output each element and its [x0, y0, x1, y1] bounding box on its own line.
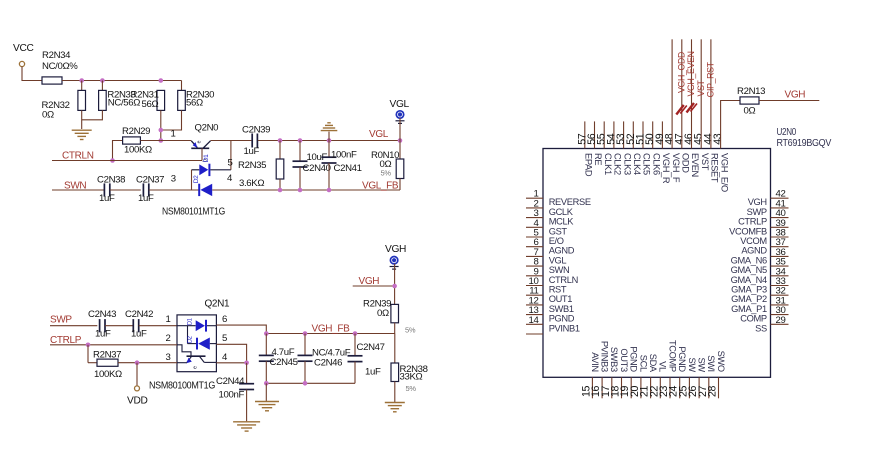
- svg-text:VGH_R: VGH_R: [661, 153, 671, 184]
- wire: [110, 189, 141, 191]
- svg-text:3: 3: [166, 352, 171, 363]
- svg-text:1uF: 1uF: [99, 193, 115, 204]
- pin 2 path: [177, 345, 191, 356]
- pin 1 wire: [139, 325, 177, 327]
- svg-text:AGND: AGND: [741, 246, 767, 256]
- svg-text:PGND: PGND: [677, 346, 687, 372]
- capacitor C2N41: [328, 141, 330, 158]
- svg-text:C2N46: C2N46: [314, 358, 342, 369]
- resistor R2N38: [391, 363, 399, 382]
- IC top pin stubs: [584, 121, 586, 148]
- pin 5 wire: [216, 344, 246, 363]
- wire: [177, 362, 187, 364]
- svg-text:REVERSE: REVERSE: [549, 197, 591, 207]
- svg-text:SWP: SWP: [50, 315, 72, 326]
- svg-text:VCOM: VCOM: [740, 236, 767, 246]
- svg-text:1: 1: [166, 314, 171, 325]
- pin 5 wire: [230, 141, 232, 170]
- svg-text:5%: 5%: [381, 169, 392, 178]
- resistor R2N39: [391, 304, 399, 322]
- svg-text:SWI: SWI: [706, 355, 716, 372]
- IC bottom pin stubs: [591, 377, 593, 398]
- svg-text:SW: SW: [697, 358, 707, 373]
- wire: [187, 326, 189, 344]
- svg-text:SWN: SWN: [549, 265, 570, 275]
- resistor R2N13: [740, 97, 759, 104]
- svg-text:VCOMFB: VCOMFB: [729, 226, 767, 236]
- svg-text:Q2N0: Q2N0: [195, 123, 219, 134]
- svg-text:33KΩ: 33KΩ: [400, 372, 423, 383]
- svg-text:D1: D1: [203, 154, 210, 162]
- svg-text:1uF: 1uF: [131, 329, 147, 340]
- svg-text:e: e: [193, 366, 199, 369]
- svg-text:CLK2: CLK2: [613, 153, 623, 175]
- svg-text:C2N39: C2N39: [242, 125, 270, 136]
- svg-text:R2N29: R2N29: [122, 126, 150, 137]
- svg-text:SWB1: SWB1: [549, 304, 574, 314]
- svg-text:R2N34: R2N34: [42, 50, 71, 61]
- IC U2N0 body: [543, 149, 771, 378]
- svg-text:VGH: VGH: [748, 197, 767, 207]
- pin 3 wire: [137, 362, 177, 364]
- svg-text:6: 6: [222, 314, 227, 325]
- ground: [385, 402, 405, 404]
- svg-text:3.6KΩ: 3.6KΩ: [239, 178, 264, 189]
- wire: [201, 148, 203, 160]
- svg-text:OUT1: OUT1: [549, 294, 573, 304]
- node junction: [135, 360, 140, 365]
- net VGH_EVEN wire: [691, 39, 693, 148]
- diode D1: [192, 169, 200, 171]
- ground: [328, 132, 330, 141]
- svg-text:PVINB1: PVINB1: [549, 323, 580, 333]
- node junction: [278, 138, 283, 143]
- svg-text:OUT3: OUT3: [619, 348, 629, 372]
- svg-text:VDD: VDD: [127, 396, 147, 407]
- svg-text:EVEN: EVEN: [690, 153, 700, 177]
- capacitor C2N44: [246, 363, 248, 384]
- diode D2: [196, 338, 198, 350]
- svg-text:100nF: 100nF: [331, 150, 357, 161]
- svg-text:5%: 5%: [405, 326, 416, 335]
- net VGH_ODD wire: [681, 39, 683, 148]
- svg-text:56Ω: 56Ω: [142, 99, 159, 110]
- svg-text:VGH_EVEN: VGH_EVEN: [686, 51, 696, 96]
- svg-text:2: 2: [166, 333, 171, 344]
- svg-text:AGND: AGND: [549, 246, 575, 256]
- svg-text:VGH_FB: VGH_FB: [312, 324, 351, 335]
- wire: [62, 80, 182, 82]
- svg-text:SWB3: SWB3: [609, 347, 619, 372]
- pin 4 wire: [216, 362, 246, 364]
- wire: [211, 140, 252, 142]
- wire: [394, 334, 396, 364]
- wire: [105, 325, 133, 327]
- svg-text:EPAD: EPAD: [584, 153, 594, 177]
- svg-text:D2: D2: [188, 335, 194, 343]
- svg-text:PVINB3: PVINB3: [600, 341, 610, 372]
- capacitor C2N45: [265, 334, 267, 356]
- net VGH_FB rail: [266, 333, 395, 335]
- resistor R0N10: [399, 141, 401, 160]
- svg-text:VCC: VCC: [13, 43, 33, 54]
- node junction: [159, 128, 164, 133]
- svg-text:CTRLN: CTRLN: [549, 275, 578, 285]
- svg-text:VST: VST: [700, 153, 710, 171]
- svg-text:SDA: SDA: [648, 354, 658, 373]
- svg-text:NC/0Ω%: NC/0Ω%: [42, 61, 78, 72]
- diode D2: [198, 184, 200, 196]
- package outline Q2N1: [177, 315, 216, 372]
- net GIP_RST wire: [710, 39, 712, 148]
- svg-text:29: 29: [776, 315, 786, 326]
- svg-text:C2N37: C2N37: [136, 175, 164, 186]
- svg-text:CLK1: CLK1: [603, 153, 613, 175]
- wire: [394, 264, 396, 305]
- svg-text:1uF: 1uF: [244, 146, 260, 157]
- transistor Q1: [187, 355, 206, 357]
- svg-text:C2N44: C2N44: [216, 376, 245, 387]
- svg-text:56Ω: 56Ω: [186, 98, 203, 109]
- capacitor C2N40: [299, 141, 301, 162]
- capacitor C2N42: [132, 319, 134, 332]
- svg-text:VGL: VGL: [549, 255, 567, 265]
- svg-text:VL: VL: [658, 361, 668, 372]
- svg-text:GMA_P2: GMA_P2: [731, 294, 767, 304]
- resistor R2N35: [279, 141, 281, 160]
- node junction: [110, 158, 115, 163]
- svg-text:R2N37: R2N37: [93, 350, 121, 361]
- svg-text:R2N35: R2N35: [238, 160, 266, 171]
- svg-text:5: 5: [228, 158, 233, 169]
- svg-text:5%: 5%: [406, 384, 417, 393]
- svg-text:VGL: VGL: [390, 99, 410, 110]
- svg-text:C2N42: C2N42: [125, 309, 153, 320]
- capacitor C2N43: [99, 319, 101, 332]
- svg-text:100KΩ: 100KΩ: [94, 369, 122, 380]
- svg-text:D2: D2: [193, 175, 200, 183]
- resistor R2N32: [81, 81, 83, 91]
- svg-text:GMA_N6: GMA_N6: [731, 255, 767, 265]
- capacitor C2N39: [251, 134, 253, 148]
- pin 48 wire: [671, 39, 673, 148]
- svg-text:R2N13: R2N13: [737, 86, 765, 97]
- net VST wire: [700, 39, 702, 148]
- svg-text:VGH: VGH: [785, 90, 806, 101]
- svg-text:GMA_P3: GMA_P3: [731, 285, 767, 295]
- wire: [399, 118, 401, 141]
- svg-text:C2N41: C2N41: [334, 163, 362, 174]
- node junction: [264, 381, 269, 386]
- net VGH wire: [759, 100, 819, 102]
- pin 6 wire: [216, 325, 266, 333]
- svg-text:PGND: PGND: [629, 346, 639, 372]
- svg-text:RE: RE: [593, 153, 603, 165]
- svg-text:Q2N1: Q2N1: [205, 299, 231, 310]
- svg-text:U2N0: U2N0: [777, 127, 797, 138]
- svg-text:e: e: [197, 141, 203, 144]
- ground: [265, 383, 267, 401]
- svg-text:MCLK: MCLK: [549, 217, 575, 227]
- svg-text:C2N47: C2N47: [357, 342, 385, 353]
- wire: [266, 382, 355, 384]
- svg-text:28: 28: [707, 385, 719, 397]
- svg-text:C2N45: C2N45: [270, 357, 298, 368]
- capacitor C2N37: [142, 183, 144, 196]
- IC right pin stubs: [771, 197, 789, 199]
- svg-text:100nF: 100nF: [219, 390, 245, 401]
- svg-text:VGL: VGL: [369, 129, 389, 140]
- svg-text:VGL_FB: VGL_FB: [362, 181, 399, 192]
- svg-text:CTRLN: CTRLN: [62, 151, 94, 162]
- svg-text:SCL: SCL: [638, 355, 648, 372]
- svg-text:COMP: COMP: [740, 314, 767, 324]
- svg-text:VGH_F: VGH_F: [671, 153, 681, 183]
- svg-text:VGH: VGH: [359, 276, 380, 287]
- svg-text:43: 43: [712, 133, 724, 145]
- net VGL_FB: [278, 188, 283, 193]
- svg-text:E/O: E/O: [549, 236, 564, 246]
- svg-text:1uF: 1uF: [95, 329, 111, 340]
- svg-text:GST: GST: [549, 226, 568, 236]
- svg-text:NSM80100MT1G: NSM80100MT1G: [149, 381, 216, 392]
- no-connect mark pin 47: [676, 105, 684, 115]
- svg-text:ODD: ODD: [681, 153, 691, 173]
- svg-text:GMA_N5: GMA_N5: [731, 265, 767, 275]
- IC left pin stubs: [526, 197, 543, 199]
- ground: [233, 421, 260, 423]
- svg-text:GMA_N4: GMA_N4: [731, 275, 767, 285]
- pin 43 wire: [721, 101, 740, 149]
- resistor R2N34: [42, 77, 62, 84]
- svg-text:0Ω: 0Ω: [377, 308, 389, 319]
- svg-text:VST: VST: [696, 79, 706, 96]
- diode D1: [177, 325, 196, 327]
- ground: [72, 129, 92, 131]
- pin 1 wire: [161, 140, 192, 142]
- net VGL wire: [258, 140, 400, 142]
- svg-text:NSM80101MT1G: NSM80101MT1G: [162, 207, 225, 218]
- svg-text:GMA_P1: GMA_P1: [731, 304, 767, 314]
- svg-text:5: 5: [222, 333, 227, 344]
- node junction: [244, 361, 249, 366]
- svg-text:1uF: 1uF: [138, 193, 154, 204]
- svg-text:VGH: VGH: [385, 244, 406, 255]
- svg-text:1: 1: [171, 129, 176, 140]
- svg-text:GIP_RST: GIP_RST: [706, 61, 716, 97]
- svg-text:1uF: 1uF: [365, 367, 381, 378]
- svg-text:SWO: SWO: [716, 351, 726, 372]
- svg-text:CLK3: CLK3: [622, 153, 632, 175]
- node junction: [264, 331, 269, 336]
- no-connect mark pin 46: [687, 103, 695, 113]
- svg-text:TCOMP: TCOMP: [667, 340, 677, 372]
- svg-text:VGH_ODD: VGH_ODD: [676, 52, 686, 93]
- svg-text:0Ω: 0Ω: [744, 106, 756, 117]
- svg-text:GCLK: GCLK: [549, 207, 574, 217]
- pin 3 wire: [149, 189, 200, 191]
- svg-text:SW: SW: [687, 358, 697, 373]
- pin 4 wire: [212, 189, 280, 191]
- resistor R2N33: [101, 81, 103, 91]
- svg-text:3: 3: [171, 174, 176, 185]
- node junction: [79, 78, 84, 83]
- resistor R2N30: [181, 81, 183, 91]
- svg-text:C2N43: C2N43: [88, 309, 116, 320]
- net VGL_FB wire: [280, 189, 400, 191]
- svg-text:D1: D1: [188, 317, 194, 325]
- capacitor C2N46: [304, 334, 306, 356]
- resistor R2N29: [113, 141, 123, 161]
- svg-text:CLK6: CLK6: [651, 153, 661, 175]
- svg-text:14: 14: [529, 315, 540, 326]
- capacitor C2N38: [103, 183, 105, 196]
- resistor R2N31: [157, 90, 165, 110]
- svg-text:RT6919BGQV: RT6919BGQV: [777, 138, 832, 149]
- svg-text:C2N40: C2N40: [303, 163, 331, 174]
- power flag VDD: [136, 363, 138, 386]
- wire: [22, 67, 42, 81]
- svg-text:C2N38: C2N38: [97, 175, 125, 186]
- svg-text:PGND: PGND: [549, 314, 575, 324]
- svg-text:RESET: RESET: [710, 153, 720, 183]
- wire: [191, 170, 193, 190]
- svg-text:AVIN: AVIN: [590, 352, 600, 372]
- capacitor C2N47: [354, 334, 356, 356]
- svg-text:0Ω: 0Ω: [42, 110, 54, 121]
- svg-text:CTRLP: CTRLP: [738, 217, 767, 227]
- svg-text:SS: SS: [755, 323, 767, 333]
- svg-text:CLK5: CLK5: [642, 153, 652, 175]
- resistor R2N37: [87, 345, 89, 363]
- node junction: [86, 343, 91, 348]
- svg-text:SWP: SWP: [747, 207, 767, 217]
- svg-text:VGH_E/O: VGH_E/O: [719, 153, 729, 192]
- svg-text:100KΩ: 100KΩ: [124, 145, 152, 156]
- svg-text:CLK4: CLK4: [632, 153, 642, 175]
- svg-text:RST: RST: [549, 285, 567, 295]
